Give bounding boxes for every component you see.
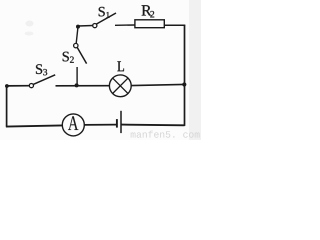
lamp L circle — [109, 75, 131, 97]
lamp L cross — [113, 78, 128, 93]
junction node middle (S2 lower / middle wire) — [75, 83, 79, 87]
wire: lamp to right junction — [131, 84, 184, 85]
wire: S2 lower lead — [76, 67, 78, 85]
resistor R2 box — [135, 20, 164, 28]
wire: top right corner to R2 — [164, 24, 185, 26]
paper background — [0, 0, 201, 140]
wire: S1 to R2 — [115, 24, 135, 26]
switch S1 pivot circle — [93, 24, 97, 28]
label S2 — [63, 52, 74, 63]
battery long plate — [120, 111, 122, 133]
label S1 — [99, 7, 110, 18]
wire: battery to bottom right corner — [121, 124, 184, 127]
ammeter A circle — [62, 114, 84, 136]
battery short plate — [116, 119, 118, 128]
wire: left column — [6, 86, 8, 127]
label R2 — [142, 5, 155, 17]
switch S3 blade — [33, 75, 55, 85]
wire: right column — [184, 25, 186, 126]
wire: top left segment (S2 junction to S1) — [78, 25, 93, 28]
junction node right (middle wire / right column) — [182, 82, 186, 86]
faint paper smudge 2 — [25, 32, 34, 36]
switch S2 pivot circle — [74, 43, 78, 47]
junction node left corner — [5, 84, 9, 88]
wire: ammeter to battery — [84, 124, 117, 126]
wire: bottom left to ammeter — [6, 125, 63, 126]
faint paper smudge — [26, 21, 34, 27]
switch S2 blade — [77, 47, 86, 63]
label S3 — [36, 64, 47, 75]
wire: middle row left to S3 — [6, 85, 30, 87]
wire: S3 to lamp — [56, 85, 110, 87]
junction node top (S2 / top wire) — [76, 25, 80, 29]
label L — [117, 61, 124, 71]
switch S1 blade — [97, 13, 117, 24]
watermark manfen5.com — [131, 131, 200, 138]
ammeter letter A — [68, 116, 78, 130]
wire: S2 upper lead — [76, 27, 78, 44]
switch S3 pivot circle — [29, 84, 33, 88]
